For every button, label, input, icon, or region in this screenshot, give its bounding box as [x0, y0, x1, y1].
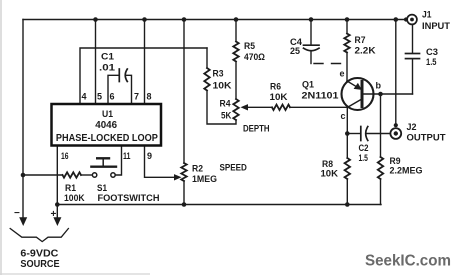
wire left rail	[22, 20, 24, 220]
svg-text:6: 6	[110, 92, 115, 102]
wire R2 to bottom rail	[183, 181, 185, 205]
svg-text:4046: 4046	[95, 120, 117, 131]
wire R7 to Q1 emitter	[346, 53, 348, 83]
svg-text:5K: 5K	[221, 111, 232, 122]
wire J1 to C3	[412, 25, 414, 53]
svg-text:25: 25	[290, 46, 301, 57]
svg-text:U1: U1	[102, 109, 114, 120]
capacitor C4	[304, 45, 320, 51]
arrowhead minus lead	[19, 217, 27, 226]
svg-text:c: c	[341, 111, 346, 121]
resistor R3	[204, 68, 209, 91]
scan edge bottom left	[0, 273, 150, 275]
svg-text:Q1: Q1	[302, 80, 315, 91]
svg-text:e: e	[340, 69, 345, 79]
svg-text:1MEG: 1MEG	[192, 174, 217, 185]
switch S1 plunger	[91, 158, 116, 166]
wire R9 top	[380, 94, 382, 157]
svg-text:C1: C1	[101, 52, 115, 63]
resistor R6	[272, 105, 290, 110]
resistor R1	[63, 172, 82, 177]
wire bottom rail	[57, 204, 381, 206]
resistor R5	[233, 42, 238, 62]
IC box U1	[52, 104, 162, 146]
svg-text:R7: R7	[355, 35, 366, 46]
resistor R7	[344, 34, 349, 53]
potentiometer R4	[233, 99, 238, 120]
svg-text:DEPTH: DEPTH	[243, 124, 270, 135]
potentiometer R2	[181, 163, 186, 181]
wire R9 to bottom rail	[380, 179, 382, 205]
wire Q1 collector down	[346, 107, 348, 158]
svg-text:1.5: 1.5	[426, 57, 437, 68]
svg-text:OUTPUT: OUTPUT	[407, 133, 446, 144]
svg-text:2.2K: 2.2K	[355, 46, 376, 57]
svg-text:4: 4	[82, 92, 87, 102]
wire R3 bottom to R4 bottom	[207, 91, 236, 125]
svg-text:J2: J2	[407, 122, 417, 133]
svg-text:100K: 100K	[64, 193, 85, 204]
svg-text:−: −	[14, 208, 20, 219]
wire pin 4 riser	[80, 48, 207, 105]
svg-text:470Ω: 470Ω	[244, 52, 265, 63]
node dot R2 bottom rail	[182, 202, 187, 207]
node dot base R9	[378, 92, 383, 97]
svg-text:R2: R2	[192, 164, 203, 175]
node dot R2 rail	[182, 17, 187, 22]
wire top rail	[23, 19, 407, 21]
connector J2	[390, 128, 401, 139]
wire pin 5 to top rail	[95, 20, 97, 105]
capacitor C2	[361, 127, 368, 141]
node dot pin16 bottom rail	[55, 202, 60, 207]
wire R5 bottom to R4 top	[235, 62, 237, 100]
wire R6 to Q1 collector node	[290, 106, 348, 108]
svg-text:5: 5	[97, 92, 102, 102]
scan edge left	[0, 0, 2, 275]
switch S1 contacts	[92, 173, 115, 177]
svg-text:R5: R5	[244, 41, 256, 52]
wire pin 16 to bottom rail	[56, 146, 58, 205]
svg-text:PHASE-LOCKED LOOP: PHASE-LOCKED LOOP	[56, 132, 158, 144]
wire left rail to R1	[23, 174, 63, 176]
arrowhead R2 wiper	[174, 174, 182, 180]
svg-text:11: 11	[123, 151, 131, 161]
node dot collector C2	[345, 131, 350, 136]
svg-text:b: b	[376, 81, 382, 91]
node dot J1 tip	[404, 17, 408, 21]
wire R5 top	[235, 20, 237, 42]
wire R8 to bottom rail	[346, 179, 348, 205]
svg-text:SOURCE: SOURCE	[20, 258, 59, 270]
svg-text:SPEED: SPEED	[220, 163, 248, 174]
wire pin 6 to C1	[108, 75, 119, 104]
node dot R8 bottom rail	[345, 202, 350, 207]
node dot pin5 rail	[93, 17, 98, 22]
node dot R5 rail	[234, 17, 239, 22]
wire R3 branch	[206, 48, 208, 68]
svg-text:R4: R4	[220, 99, 232, 110]
wire R4 wiper to R6	[246, 106, 272, 108]
wire S1 to pin 11	[115, 146, 121, 175]
svg-text:.01: .01	[99, 63, 116, 74]
transistor Q1	[342, 78, 374, 110]
wire C4 bottom lead	[310, 51, 312, 63]
svg-text:1.5: 1.5	[359, 153, 369, 164]
svg-text:16: 16	[61, 151, 69, 161]
wire C1 to pin 7	[126, 75, 131, 104]
wire C3 to base node	[412, 60, 414, 95]
wire C2 to J2	[367, 133, 390, 135]
svg-text:10K: 10K	[213, 81, 232, 92]
arrowhead R4 wiper	[241, 104, 249, 110]
svg-text:R6: R6	[270, 82, 281, 93]
node dot R7 rail	[345, 17, 350, 22]
wire C2 left lead	[347, 133, 360, 135]
svg-text:2N1101: 2N1101	[302, 91, 340, 102]
wire J2 sleeve to top rail	[395, 20, 397, 125]
wire pin 8 to top rail	[144, 20, 146, 105]
battery source bracket	[10, 229, 68, 242]
wire Q1 base to C3 node	[364, 93, 413, 95]
node dot R1 left rail	[21, 173, 26, 178]
wire C4 top lead	[310, 20, 312, 46]
capacitor C1	[119, 69, 127, 82]
connector J1	[407, 15, 417, 25]
svg-text:9: 9	[147, 151, 152, 161]
capacitor C3	[406, 54, 420, 59]
wire pin 9 to R2 wiper	[145, 146, 175, 177]
svg-text:J1: J1	[422, 10, 432, 21]
node dot C4 rail	[309, 17, 314, 22]
svg-text:8: 8	[147, 92, 152, 102]
node dot J2 top	[394, 123, 398, 127]
wire R1 to S1	[81, 174, 92, 176]
wire R7 top	[346, 20, 348, 34]
node dot J2 line rail	[394, 17, 399, 22]
wire plus arrow shaft	[56, 205, 58, 219]
svg-text:FOOTSWITCH: FOOTSWITCH	[98, 193, 160, 204]
node dot pin8 rail	[142, 17, 147, 22]
svg-text:SeekIC.com: SeekIC.com	[365, 253, 451, 270]
wire dashed C4 to emitter line	[314, 63, 347, 65]
svg-text:INPUT: INPUT	[422, 21, 450, 32]
svg-text:R3: R3	[213, 69, 224, 80]
arrowhead plus lead	[53, 217, 61, 226]
svg-text:2.2MEG: 2.2MEG	[390, 166, 423, 177]
wire R2 branch top	[183, 20, 185, 164]
resistor R9	[378, 157, 383, 179]
svg-text:7: 7	[134, 92, 139, 102]
svg-text:+: +	[51, 209, 57, 220]
resistor R8	[345, 158, 350, 179]
svg-text:10K: 10K	[270, 92, 288, 103]
svg-text:10K: 10K	[321, 169, 339, 180]
